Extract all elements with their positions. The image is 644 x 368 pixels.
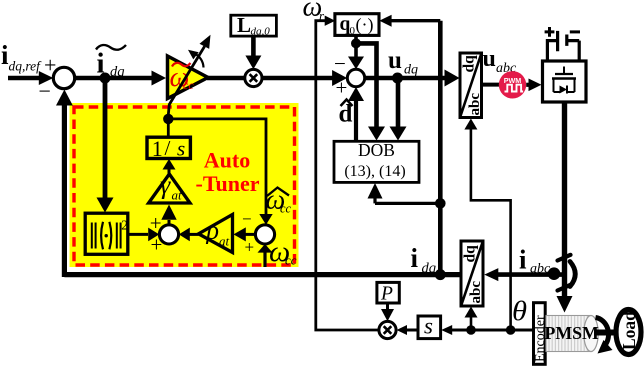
summing junction S1 [39,53,75,104]
wire: L_dq,0 to multiplier M1 [245,37,261,70]
wire: i_dq branch to DOB bottom [368,183,441,203]
svg-text:u: u [388,47,402,74]
wire: u_dq node to DOB [390,78,407,141]
summing junction S3 [150,211,179,257]
label i_abc [519,245,551,277]
wire: theta to abc-dq box [465,307,478,331]
DC link capacitor [545,27,580,61]
svg-text:dq: dq [461,55,478,73]
wire: P to multiplier M2 [381,303,394,321]
svg-text:−: − [334,52,346,76]
encoder block [533,303,548,365]
block norm squared [85,213,128,254]
label omega-hat_cc [266,185,292,216]
svg-text:abc: abc [468,281,484,304]
wire: rho to S3 [179,228,199,242]
wire: i_dq feedback rail [56,90,461,278]
block s [418,314,441,339]
svg-text:cc: cc [285,253,297,268]
svg-text:γ: γ [160,171,171,200]
svg-text:i: i [411,243,419,273]
summing junction S4 [242,210,275,257]
svg-text:ρ: ρ [206,216,219,245]
svg-text:1: 1 [152,136,163,161]
svg-text:/: / [165,136,171,160]
rotation arrow [596,318,613,354]
wire: amplifier to multiplier M1 [207,76,244,81]
label Auto-Tuner [196,148,260,197]
svg-text:at: at [172,188,183,203]
wire: PWM to inverter [526,79,541,92]
svg-text:−: − [39,79,51,104]
multiplier M2 [379,321,396,338]
wire: d-hat from DOB to S2 [348,87,364,142]
svg-text:dq,0: dq,0 [251,26,271,38]
wire: node to amplifier [105,71,166,86]
wire: inverter output to PMSM [557,103,573,313]
wire: dq-abc to PWM [482,83,500,87]
svg-text:−: − [242,210,252,229]
svg-text:dq: dq [462,245,479,263]
amplifier adaptive gain (triangle) [168,56,209,99]
wire: omega_cc input [258,244,273,267]
block abc to dq (current) [461,241,484,306]
label omega_r [303,0,326,23]
wire: S4 to rho [234,227,256,241]
multiplier M1 [245,69,262,86]
wire: q_0 node to DOB [356,43,385,140]
block dq to abc (voltage) [460,53,483,118]
block q_0(.) [335,14,379,37]
wire: i_dq riser to q_0 [379,15,440,272]
svg-text:+: + [150,211,162,235]
svg-text:dq,ref: dq,ref [9,59,43,74]
label u_dq [388,47,418,78]
adjustment arc arrow [188,50,204,68]
svg-text:i: i [97,48,105,80]
svg-text:Load: Load [619,311,639,350]
svg-text:s: s [424,314,433,339]
svg-text:at: at [219,234,230,249]
inverter box [543,61,587,102]
motor shaft [594,330,617,336]
label omega_cc [269,235,297,268]
svg-text:i: i [519,245,527,275]
svg-text:(13), (14): (13), (14) [344,163,405,180]
wire: q_0 output to S2 [348,35,364,69]
svg-text:DOB: DOB [358,140,395,160]
summing junction S2 [334,52,365,100]
block DOB [334,140,419,182]
adjustable-gain diagonal arrow [168,35,211,119]
label i_dq [411,243,437,277]
svg-text:PMSM: PMSM [545,323,600,343]
wire: node to norm block [97,78,114,213]
svg-text:P: P [380,284,393,305]
svg-text:s: s [177,137,185,161]
svg-text:-Tuner: -Tuner [196,171,260,196]
svg-text:Auto: Auto [204,148,250,173]
svg-text:(·): (·) [356,14,374,35]
wire: node to 1/s [167,119,170,138]
svg-text:+: + [44,53,56,78]
svg-text:cc: cc [280,202,292,216]
rho_at triangle [199,215,233,253]
node below q_0 [351,38,361,48]
svg-text:PWM: PWM [504,76,522,85]
svg-text:dq: dq [422,261,437,277]
svg-text:θ: θ [512,296,527,326]
node theta right [506,325,516,335]
node u_dq [392,73,403,84]
arrow into s block [441,325,452,335]
node on riser [435,198,446,209]
label d-hat [339,100,353,128]
svg-text:2: 2 [121,218,128,233]
PWM modulator [499,71,526,98]
wire: node to minus junction [168,119,272,225]
wire: norm to summing junction S3 [128,228,159,242]
node theta left [466,325,476,335]
svg-text:+: + [151,233,163,257]
svg-text:abc: abc [467,93,483,116]
theta rail [451,329,533,332]
block 1/s integrator [147,136,190,161]
svg-text:u: u [483,46,496,72]
wire: theta riser to dq-abc box [464,119,510,331]
PMSM motor [545,316,600,352]
node i_abc [548,267,561,280]
svg-text:dq: dq [404,63,418,78]
svg-text:L: L [237,13,251,37]
svg-text:+: + [245,238,255,257]
label u_abc [483,46,518,76]
svg-text:+: + [336,76,348,100]
auto-tuner red dashed border [74,107,295,265]
wire: s to multiplier M2 [397,325,419,335]
current sensor arc [570,262,575,287]
label i_dq,ref [1,40,42,74]
node i_dq tilde [100,73,111,84]
wire: multiplier M1 to summing junction S2 [262,70,347,86]
three-phase tick marks [558,255,571,291]
label i_dq tilde [96,45,126,80]
gamma_at triangle [149,171,190,204]
wire: S1 to node [75,76,105,81]
wire: S2 to dq-abc box [365,70,460,87]
node adaptive gain [163,114,173,124]
Load [616,310,641,355]
auto-tuner yellow region [70,103,299,267]
block P [377,282,399,304]
wire: i_abc to abc-dq box [484,268,562,281]
block L_dq,0 [231,13,277,38]
wire: i_dq,ref input [8,71,53,85]
wire: S3 to gamma [161,205,176,225]
node i_dq on rail [435,269,446,280]
wire: gamma to 1/s [163,159,176,174]
wire omega_r riser [316,16,379,331]
